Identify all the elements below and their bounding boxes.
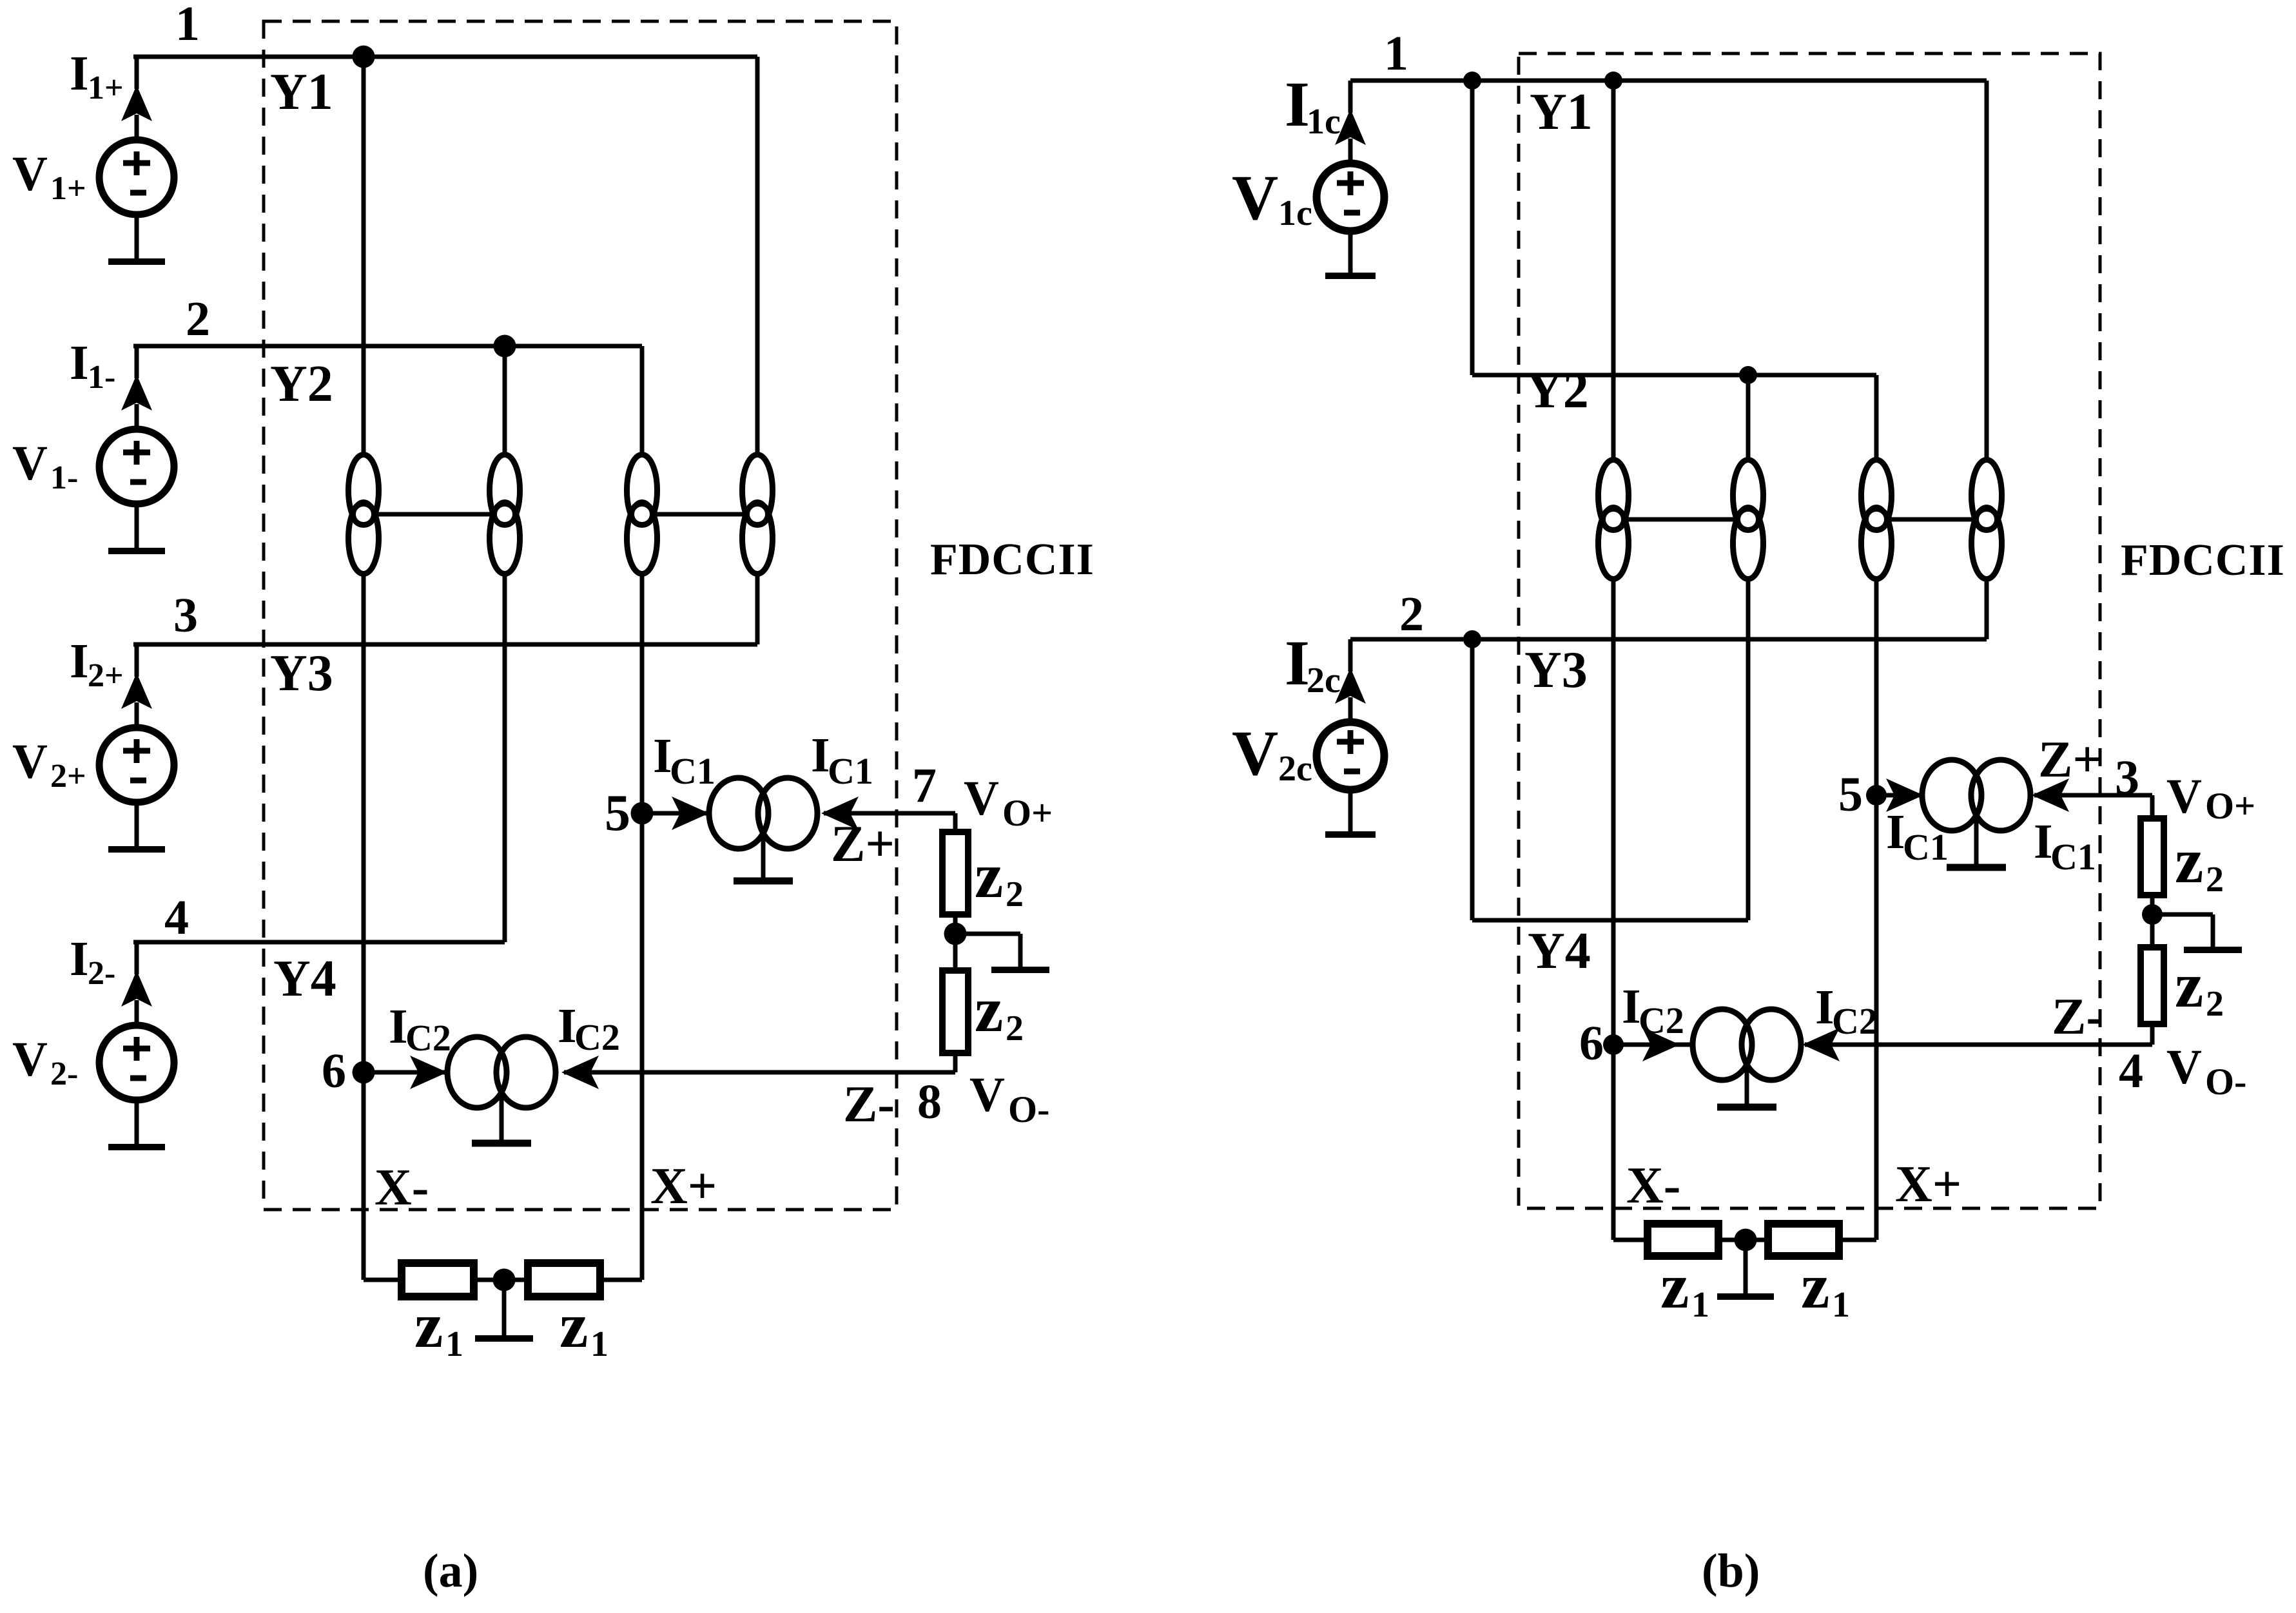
z1 rail (b) (1613, 1238, 1876, 1242)
svg-text:FDCCII: FDCCII (2121, 536, 2285, 585)
svg-text:2: 2 (1006, 1009, 1024, 1048)
svg-text:2: 2 (1399, 587, 1424, 641)
svg-text:V: V (969, 1068, 1005, 1122)
z1 rail (a) (364, 1278, 642, 1282)
svg-text:z: z (975, 840, 1003, 911)
svg-text:(b): (b) (1702, 1545, 1760, 1598)
resistor z1 right (b) (1768, 1224, 1839, 1256)
pair connector 1-2 (a) (364, 512, 505, 517)
svg-text:2-: 2- (88, 955, 115, 992)
svg-text:z: z (1801, 1250, 1829, 1322)
svg-text:Y2: Y2 (1526, 362, 1589, 419)
wire Z+ into IC1 with arrow (a) (824, 811, 955, 816)
nullator pair 3 (a) (627, 455, 657, 574)
svg-text:C1: C1 (1903, 826, 1949, 868)
pair circle 2 (a) (494, 504, 516, 525)
wire vertical v4 (a) (755, 57, 760, 644)
pair circle 2 (b) (1738, 509, 1759, 530)
svg-text:V: V (12, 436, 48, 490)
wire Z- horizontal (a) (564, 1070, 955, 1075)
svg-text:1+: 1+ (50, 170, 86, 207)
wire vertical v2 (b) (1746, 375, 1751, 920)
pair circle 4 (b) (1976, 509, 1998, 530)
svg-text:4: 4 (2119, 1044, 2143, 1098)
svg-text:7: 7 (912, 758, 937, 813)
svg-text:Z-: Z- (2052, 989, 2103, 1045)
resistor z2 bottom (b) (2141, 947, 2164, 1024)
node 5 junction dot (a) (631, 802, 654, 825)
svg-text:3: 3 (173, 588, 198, 642)
wire z2 bottom to node8 (a) (953, 1053, 958, 1072)
wire z2 to mid dot (b) (2150, 895, 2155, 950)
mid junction dot z2 (b) (2142, 904, 2163, 925)
svg-text:V: V (1232, 717, 1278, 789)
wire vertical v2 (a) (503, 346, 507, 942)
wire node 2 horizontal (a) (133, 344, 642, 349)
svg-text:FDCCII: FDCCII (930, 535, 1094, 584)
wire node7 corner down (a) (953, 813, 958, 835)
resistor z2 top (b) (2141, 818, 2164, 895)
ground branch right (b) (2152, 913, 2213, 917)
wire node6 to IC2 with arrow (b) (1613, 1043, 1690, 1047)
svg-text:C1: C1 (670, 750, 715, 792)
wire X+ vertical v3 (a) (640, 346, 645, 1280)
svg-text:O+: O+ (2205, 785, 2255, 827)
svg-text:C2: C2 (405, 1017, 451, 1059)
svg-text:5: 5 (1838, 768, 1863, 822)
svg-text:V: V (964, 771, 999, 826)
wire Y2 horizontal (b) (1472, 373, 1876, 378)
FDCCII dashed box (b) (1519, 53, 2100, 1208)
wire node3 corner down (b) (2150, 795, 2155, 821)
wire node 1 horizontal (b) (1350, 79, 1987, 83)
svg-text:z: z (975, 974, 1003, 1045)
wire z2 to mid dot (a) (953, 914, 958, 973)
svg-text:Y4: Y4 (1528, 923, 1591, 980)
svg-text:2+: 2+ (88, 657, 124, 694)
svg-text:5: 5 (605, 785, 630, 842)
svg-text:2: 2 (2206, 860, 2224, 900)
nullator pair 1 (b) (1599, 460, 1629, 579)
svg-text:Z+: Z+ (2038, 731, 2102, 788)
resistor z1 left (a) (402, 1263, 474, 1297)
wire node 2 horizontal (b) (1350, 637, 1987, 642)
wire node5 to IC1 with arrow (b) (1876, 793, 1921, 798)
svg-text:z: z (414, 1289, 443, 1361)
nullator pair 2 (b) (1733, 460, 1764, 579)
current source IC2 (b) (1693, 1009, 1801, 1107)
junction dot node1-b (b) (1604, 72, 1622, 90)
junction dot Y2 (a) (494, 335, 516, 358)
wire node 1 horizontal (a) (133, 55, 757, 59)
pair circle 3 (a) (632, 504, 653, 525)
svg-text:I: I (70, 932, 89, 986)
wire Y3-Y4 link vertical (b) (1470, 639, 1475, 920)
wire Y4 horizontal (b) (1472, 918, 1748, 923)
svg-text:C2: C2 (1639, 1000, 1684, 1041)
svg-text:X+: X+ (1895, 1156, 1961, 1213)
svg-text:V: V (12, 1032, 48, 1087)
svg-text:1: 1 (175, 0, 200, 51)
wire vertical v4 (b) (1985, 81, 1989, 639)
svg-text:Y3: Y3 (1524, 642, 1588, 699)
svg-text:V: V (12, 735, 48, 789)
node 5 junction dot (b) (1866, 785, 1887, 806)
pair connector 1-2 (b) (1613, 517, 1748, 522)
current source IC1 (a) (709, 778, 817, 881)
ground below z1 (b) (1744, 1240, 1748, 1293)
resistor z1 left (b) (1648, 1224, 1718, 1256)
svg-text:1: 1 (1832, 1285, 1850, 1325)
svg-text:z: z (1660, 1250, 1689, 1322)
svg-text:z: z (559, 1289, 588, 1361)
svg-text:1: 1 (1384, 26, 1408, 81)
wire X- vertical v1 (a) (362, 57, 366, 1280)
svg-text:z: z (2175, 825, 2203, 896)
svg-text:X-: X- (375, 1159, 429, 1216)
svg-text:1c: 1c (1278, 193, 1312, 233)
nullator pair 1 (a) (349, 455, 379, 574)
voltage source V2c (1317, 639, 1385, 835)
svg-text:2: 2 (2206, 984, 2224, 1024)
svg-text:2: 2 (186, 292, 210, 346)
svg-text:I: I (70, 634, 89, 688)
svg-text:V: V (12, 147, 48, 201)
junction dot node2 (b) (1463, 630, 1481, 648)
resistor z2 bottom (a) (942, 971, 968, 1053)
wire Z+ into IC1 with arrow (b) (2034, 793, 2152, 798)
FDCCII dashed box (a) (264, 21, 897, 1210)
wire Y1-Y2 link vertical (b) (1470, 81, 1475, 375)
pair circle 4 (a) (747, 504, 768, 525)
pair connector 3-4 (a) (642, 512, 757, 517)
wire node 4 horizontal (a) (133, 940, 505, 945)
svg-text:1: 1 (445, 1324, 463, 1364)
voltage source V1c (1317, 81, 1385, 276)
svg-text:2c: 2c (1278, 749, 1312, 789)
svg-text:Y1: Y1 (270, 64, 333, 121)
svg-text:C1: C1 (828, 750, 873, 792)
svg-text:2: 2 (1006, 874, 1024, 914)
wire z2 bottom to node4 (b) (2150, 1024, 2155, 1045)
svg-text:X+: X+ (650, 1158, 717, 1215)
svg-text:V: V (2166, 769, 2202, 824)
svg-text:O-: O- (1008, 1088, 1049, 1130)
svg-text:4: 4 (164, 891, 189, 945)
wire Z- horizontal (b) (1805, 1043, 2152, 1047)
pair connector 3-4 (b) (1876, 517, 1987, 522)
resistor z1 right (a) (528, 1263, 600, 1297)
pair circle 1 (a) (353, 504, 375, 525)
nullator pair 2 (a) (490, 455, 520, 574)
svg-text:2c: 2c (1307, 661, 1341, 700)
pair circle 1 (b) (1603, 509, 1624, 530)
svg-text:1-: 1- (88, 359, 115, 396)
junction dot Y1 (a) (353, 46, 375, 68)
svg-text:O-: O- (2205, 1061, 2246, 1103)
svg-text:Y2: Y2 (270, 356, 333, 412)
svg-text:z: z (2175, 949, 2203, 1021)
nullator pair 4 (b) (1972, 460, 2002, 579)
svg-text:X-: X- (1626, 1157, 1680, 1214)
svg-text:2+: 2+ (50, 758, 86, 795)
wire node5 to IC1 with arrow (a) (642, 811, 706, 816)
svg-text:Y1: Y1 (1530, 84, 1593, 140)
voltage source V2+ (99, 644, 174, 849)
ground below z1 (a) (502, 1280, 507, 1335)
current source IC1 (b) (1922, 760, 2030, 867)
junction dot Y2 (b) (1739, 366, 1757, 384)
svg-text:2-: 2- (50, 1056, 78, 1092)
svg-text:1: 1 (1691, 1285, 1709, 1325)
svg-text:1: 1 (590, 1324, 608, 1364)
nullator pair 3 (b) (1862, 460, 1892, 579)
wire X- vertical v1 (b) (1611, 81, 1616, 1240)
svg-text:1-: 1- (50, 459, 78, 496)
svg-text:6: 6 (322, 1044, 346, 1098)
svg-text:Z+: Z+ (831, 816, 895, 873)
svg-text:3: 3 (2115, 751, 2139, 805)
mid junction dot z2 (a) (944, 923, 967, 945)
voltage source V2- (99, 942, 174, 1147)
node 6 junction dot (a) (353, 1061, 375, 1084)
svg-text:I: I (70, 336, 89, 390)
current source IC2 (a) (447, 1037, 556, 1143)
svg-text:1c: 1c (1307, 102, 1341, 142)
svg-text:1+: 1+ (88, 70, 124, 106)
z1 mid junction dot (a) (493, 1269, 516, 1291)
svg-text:Z-: Z- (843, 1076, 895, 1133)
pair circle 3 (b) (1866, 509, 1887, 530)
svg-text:V: V (2166, 1040, 2202, 1094)
wire node6 to IC2 with arrow (a) (364, 1070, 445, 1075)
svg-text:(a): (a) (423, 1545, 478, 1598)
voltage source V1- (99, 346, 174, 551)
svg-text:V: V (1232, 162, 1278, 233)
svg-text:O+: O+ (1002, 792, 1053, 834)
junction dot node1-a (b) (1463, 72, 1481, 90)
svg-text:Y4: Y4 (273, 951, 336, 1007)
wire X+ vertical v3 (b) (1874, 375, 1879, 1240)
svg-text:C2: C2 (574, 1016, 620, 1058)
node 6 junction dot (b) (1603, 1034, 1624, 1055)
svg-text:6: 6 (1579, 1016, 1604, 1070)
ground branch right (a) (955, 932, 1020, 936)
svg-text:C1: C1 (2050, 836, 2096, 878)
svg-text:8: 8 (917, 1075, 942, 1129)
svg-text:I: I (70, 46, 89, 101)
resistor z2 top (a) (942, 832, 968, 914)
wire node 3 horizontal (a) (133, 642, 757, 647)
voltage source V1+ (99, 57, 174, 262)
svg-text:Y3: Y3 (270, 645, 333, 702)
nullator pair 4 (a) (743, 455, 773, 574)
z1 mid junction dot (b) (1735, 1229, 1757, 1251)
svg-text:C2: C2 (1832, 1000, 1878, 1042)
